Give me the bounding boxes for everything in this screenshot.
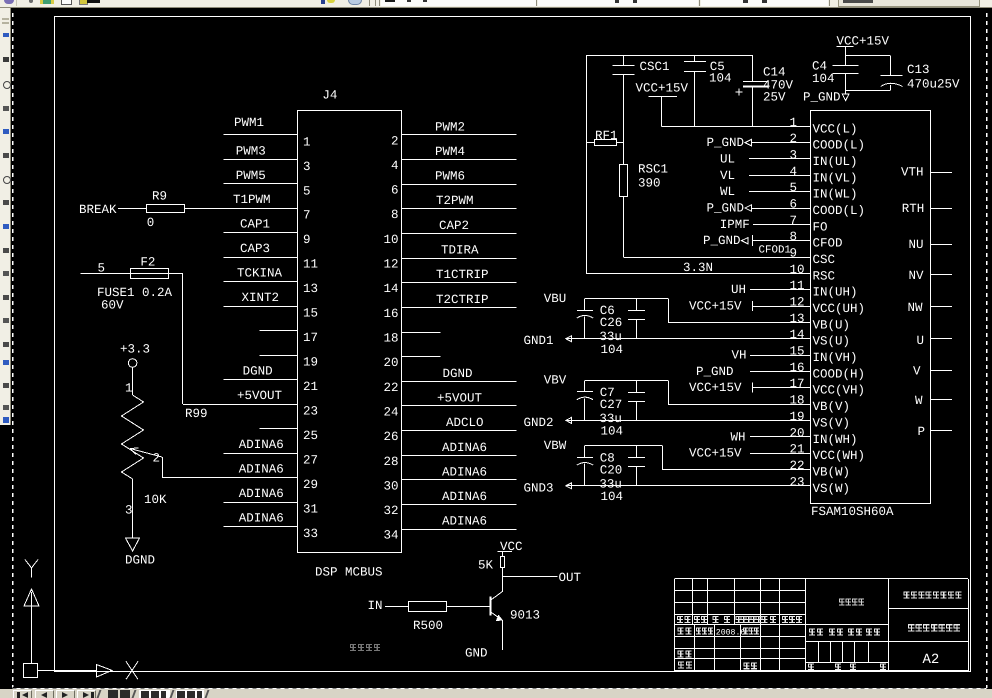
title block grid bbox=[675, 579, 969, 671]
capacitor CSC1 bbox=[612, 55, 669, 74]
svg-text:R9: R9 bbox=[152, 190, 167, 204]
resistor RSC1 390 bbox=[620, 163, 669, 197]
net label PWM5 (J4 pin 5) bbox=[236, 169, 266, 183]
IC pin number 14 bbox=[790, 328, 805, 342]
IC output RTH bbox=[902, 202, 952, 216]
svg-text:27: 27 bbox=[303, 454, 318, 468]
IC output V bbox=[913, 365, 952, 379]
canvas selection dashed edge right bbox=[986, 9, 988, 688]
wire J4 pin 2 (PWM2) bbox=[402, 134, 516, 136]
svg-text:VS(W): VS(W) bbox=[813, 482, 851, 496]
wire VCC+15V to IC pin 17 bbox=[753, 383, 811, 393]
svg-text:9: 9 bbox=[303, 233, 311, 247]
wire VBV rail to IC pin 18 bbox=[585, 380, 810, 404]
net label P_GND at IC pin 8 bbox=[703, 234, 748, 248]
svg-text:IPMF: IPMF bbox=[720, 218, 750, 232]
svg-text:13: 13 bbox=[790, 312, 805, 326]
pin number 12 bbox=[383, 258, 398, 272]
pin number 21 bbox=[303, 380, 318, 394]
wire C4/C13 ground rail bbox=[846, 90, 891, 92]
ground net GND3 wire to IC pin 23 bbox=[524, 481, 811, 495]
net label ADINA6 (J4 pin 34) bbox=[442, 515, 487, 529]
svg-text:21: 21 bbox=[790, 443, 805, 457]
svg-text:18: 18 bbox=[790, 394, 805, 408]
net label T2PWM (J4 pin 8) bbox=[436, 194, 474, 208]
svg-text:GND: GND bbox=[465, 647, 488, 661]
svg-text:ADINA6: ADINA6 bbox=[239, 463, 284, 477]
wire P_GND to IC pin 16 bbox=[750, 371, 810, 373]
fuse F2 FUSE1 0.2A 60V bbox=[97, 256, 173, 313]
svg-text:VCC+15V: VCC+15V bbox=[636, 82, 689, 96]
net label T1CTRIP (J4 pin 14) bbox=[436, 268, 489, 282]
ground net GND1 wire to IC pin 14 bbox=[524, 334, 811, 348]
IC pin number 17 bbox=[790, 377, 805, 391]
IC output NW bbox=[908, 301, 953, 315]
wire P_GND to IC pin 2 bbox=[751, 142, 810, 144]
net label ADINA6 (J4 pin 28) bbox=[442, 441, 487, 455]
capacitor C5 104 bbox=[684, 55, 732, 126]
wire VCC+15V to IC pin 12 bbox=[753, 301, 811, 311]
net label CAP1 (J4 pin 9) bbox=[240, 218, 270, 232]
svg-text:C20: C20 bbox=[600, 463, 623, 477]
net label VCC+15V at IC pin 21 bbox=[689, 447, 742, 461]
IC pin number 21 bbox=[790, 443, 805, 457]
svg-text:CFOD: CFOD bbox=[813, 237, 843, 251]
svg-text:104: 104 bbox=[601, 343, 624, 357]
net label VCC+15V at IC pin 17 bbox=[689, 381, 742, 395]
svg-text:20: 20 bbox=[383, 356, 398, 370]
svg-text:R500: R500 bbox=[413, 619, 443, 633]
svg-text:VL: VL bbox=[720, 169, 735, 183]
wire wiper to J4 pin 29 bbox=[162, 457, 164, 478]
wire J4 pin 19 stub bbox=[260, 355, 298, 357]
svg-text:24: 24 bbox=[383, 405, 398, 419]
svg-text:18: 18 bbox=[383, 332, 398, 346]
net label +5VOUT (J4 pin 23) bbox=[237, 389, 283, 403]
svg-text:ADCLO: ADCLO bbox=[446, 416, 484, 430]
svg-text:0: 0 bbox=[147, 216, 155, 230]
net label ADINA6 (J4 pin 29) bbox=[239, 463, 284, 477]
wire J4 pin 33 (ADINA6) bbox=[224, 526, 298, 528]
svg-text:RSC: RSC bbox=[813, 269, 836, 283]
pin 3 label of potentiometer bbox=[125, 504, 133, 518]
net label IN bbox=[368, 599, 383, 613]
IC pin name IN(WL) (pin 5) bbox=[813, 188, 858, 202]
wire VCC+15V to IC pin 21 bbox=[750, 453, 810, 455]
pin number 27 bbox=[303, 454, 318, 468]
value label 104 bbox=[601, 425, 624, 439]
svg-text:11: 11 bbox=[303, 258, 318, 272]
svg-text:ADINA6: ADINA6 bbox=[442, 515, 487, 529]
wire IPMF to IC pin 7 bbox=[753, 224, 810, 226]
pin number 2 bbox=[391, 134, 399, 148]
UCS icon origin box bbox=[24, 664, 38, 678]
IC pin name RSC (pin 10) bbox=[813, 269, 836, 283]
svg-text:34: 34 bbox=[383, 529, 398, 543]
net label P_GND at IC pin 6 bbox=[707, 202, 752, 216]
svg-text:IN(WH): IN(WH) bbox=[813, 433, 858, 447]
svg-text:30: 30 bbox=[383, 479, 398, 493]
IC pin name CSC (pin 9) bbox=[813, 253, 836, 267]
value label 33u bbox=[599, 412, 622, 426]
IC pin name COOD(H) (pin 16) bbox=[813, 367, 866, 381]
IC pin number 13 bbox=[790, 312, 805, 326]
pin number 33 bbox=[303, 527, 318, 541]
svg-text:16: 16 bbox=[383, 307, 398, 321]
svg-text:19: 19 bbox=[303, 356, 318, 370]
capacitor CFOD1 3.3N at IC pin 8 bbox=[753, 235, 811, 256]
svg-text:VCC(L): VCC(L) bbox=[813, 122, 858, 136]
svg-text:1: 1 bbox=[790, 116, 798, 130]
svg-text:VBU: VBU bbox=[544, 292, 567, 306]
svg-text:DSP MCBUS: DSP MCBUS bbox=[315, 566, 383, 580]
pin number 32 bbox=[383, 504, 398, 518]
net label ADINA6 (J4 pin 31) bbox=[239, 487, 284, 501]
svg-text:NW: NW bbox=[908, 301, 924, 315]
pin number 17 bbox=[303, 331, 318, 345]
top toolbar strip bbox=[0, 0, 992, 8]
svg-text:GND1: GND1 bbox=[524, 334, 554, 348]
potentiometer wiper arrow (pin 2) bbox=[130, 448, 162, 466]
wire J4 pin 32 (ADINA6) bbox=[402, 504, 516, 506]
svg-text:UL: UL bbox=[720, 153, 735, 167]
svg-text:W: W bbox=[915, 394, 923, 408]
svg-text:T2PWM: T2PWM bbox=[436, 194, 474, 208]
UCS icon X axis bbox=[38, 661, 138, 679]
net label ADINA6 (J4 pin 27) bbox=[239, 438, 284, 452]
IC U1 FSAM10SH60A body bbox=[811, 111, 931, 520]
svg-text:3: 3 bbox=[303, 160, 311, 174]
svg-text:WL: WL bbox=[720, 185, 735, 199]
svg-text:VTH: VTH bbox=[901, 166, 924, 180]
ground GND label bbox=[465, 647, 488, 661]
wire UH to IC pin 11 bbox=[750, 289, 810, 291]
pin 1 label of potentiometer bbox=[125, 382, 133, 396]
wire BREAK to R9 bbox=[118, 208, 147, 210]
svg-text:P_GND: P_GND bbox=[707, 202, 745, 216]
wire F2 to +5VOUT (R99 net) bbox=[169, 274, 183, 405]
wire J4 pin 31 (ADINA6) bbox=[224, 502, 298, 504]
wire VH to IC pin 15 bbox=[750, 355, 810, 357]
net label ADINA6 (J4 pin 33) bbox=[239, 512, 284, 526]
IC pin name IN(VL) (pin 4) bbox=[813, 171, 858, 185]
IC pin number 7 bbox=[790, 214, 798, 228]
IC pin name FO (pin 7) bbox=[813, 220, 828, 234]
svg-text:FO: FO bbox=[813, 220, 828, 234]
value label 33u bbox=[599, 330, 622, 344]
svg-text:DGND: DGND bbox=[243, 365, 273, 379]
svg-text:GND2: GND2 bbox=[524, 416, 554, 430]
svg-text:9013: 9013 bbox=[510, 609, 540, 623]
label R99 bbox=[185, 407, 208, 421]
svg-text:104: 104 bbox=[709, 72, 732, 86]
net label XINT2 (J4 pin 15) bbox=[242, 291, 280, 305]
pin number 28 bbox=[383, 455, 398, 469]
svg-text:VB(V): VB(V) bbox=[813, 400, 851, 414]
svg-text:ADINA6: ADINA6 bbox=[239, 438, 284, 452]
IC pin name VCC(UH) (pin 12) bbox=[813, 302, 866, 316]
IC pin number 1 bbox=[790, 116, 798, 130]
svg-text:3: 3 bbox=[125, 504, 133, 518]
wire WH to IC pin 20 bbox=[750, 436, 810, 438]
net label 5 bbox=[98, 262, 106, 276]
svg-text:IN: IN bbox=[368, 599, 383, 613]
IC pin name IN(UL) (pin 3) bbox=[813, 155, 858, 169]
svg-text:7: 7 bbox=[303, 209, 311, 223]
net label VL at IC pin 4 bbox=[720, 169, 735, 183]
pin number 16 bbox=[383, 307, 398, 321]
svg-text:10K: 10K bbox=[144, 493, 167, 507]
IC pin name VB(U) (pin 13) bbox=[813, 318, 851, 332]
net label VBV bbox=[544, 374, 567, 388]
wire lower rail to IC pin 1 bbox=[662, 126, 810, 128]
svg-text:60V: 60V bbox=[101, 299, 124, 313]
svg-text:4: 4 bbox=[391, 159, 399, 173]
svg-text:8: 8 bbox=[790, 230, 798, 244]
wire J4 pin 14 (T1CTRIP) bbox=[402, 282, 516, 284]
capacitor C8 (polarized) bbox=[577, 446, 615, 486]
wire emitter to GND bbox=[502, 620, 504, 650]
svg-text:COOD(H): COOD(H) bbox=[813, 367, 866, 381]
net label PWM1 (J4 pin 1) bbox=[234, 116, 264, 130]
canvas selection dashed edge bottom bbox=[13, 688, 987, 689]
svg-text:33: 33 bbox=[303, 527, 318, 541]
svg-text:11: 11 bbox=[790, 279, 805, 293]
svg-text:20: 20 bbox=[790, 426, 805, 440]
svg-text:OUT: OUT bbox=[559, 571, 582, 585]
IC pin name IN(VH) (pin 15) bbox=[813, 351, 858, 365]
canvas selection dashed edge left bbox=[12, 9, 14, 688]
wire J4 pin 24 (+5VOUT) bbox=[402, 405, 516, 407]
svg-text:C27: C27 bbox=[600, 398, 623, 412]
net label P_GND at IC pin 16 bbox=[696, 365, 734, 379]
svg-text:T2CTRIP: T2CTRIP bbox=[436, 293, 489, 307]
svg-text:P_GND: P_GND bbox=[696, 365, 734, 379]
wire J4 pin 15 (XINT2) bbox=[224, 306, 298, 308]
svg-text:ADINA6: ADINA6 bbox=[442, 441, 487, 455]
pin number 23 bbox=[303, 405, 318, 419]
svg-text:2: 2 bbox=[790, 132, 798, 146]
net label VBU bbox=[544, 292, 567, 306]
svg-text:FSAM10SH60A: FSAM10SH60A bbox=[811, 505, 894, 519]
net label TDIRA (J4 pin 12) bbox=[441, 244, 479, 258]
svg-text:F2: F2 bbox=[140, 256, 155, 270]
pin number 26 bbox=[383, 430, 398, 444]
wire J4 pin 22 (DGND) bbox=[402, 381, 516, 383]
svg-text:PWM6: PWM6 bbox=[435, 170, 465, 184]
pin number 1 bbox=[303, 135, 311, 149]
svg-text:26: 26 bbox=[383, 430, 398, 444]
net label T2CTRIP (J4 pin 16) bbox=[436, 293, 489, 307]
svg-text:R99: R99 bbox=[185, 407, 208, 421]
IC pin name VS(V) (pin 19) bbox=[813, 416, 851, 430]
svg-text:21: 21 bbox=[303, 380, 318, 394]
net label CAP3 (J4 pin 11) bbox=[240, 242, 270, 256]
wire potentiometer to ground bbox=[132, 479, 134, 538]
IC output NU bbox=[909, 238, 953, 252]
svg-text:RSC1: RSC1 bbox=[638, 163, 668, 177]
wire J4 pin 28 (ADINA6) bbox=[402, 455, 516, 457]
capacitor C7 (polarized) bbox=[577, 380, 615, 420]
svg-text:12: 12 bbox=[790, 296, 805, 310]
capacitor C6 (polarized) bbox=[577, 299, 615, 339]
wire C4 top to C13 bbox=[846, 56, 891, 76]
wire J4 pin 25 stub bbox=[260, 428, 298, 430]
IC pin number 22 bbox=[790, 459, 805, 473]
wire J4 pin 12 (TDIRA) bbox=[402, 258, 516, 260]
resistor R9 bbox=[147, 190, 185, 231]
wire J4 pin 7 (T1PWM) bbox=[185, 208, 298, 210]
IC pin number 6 bbox=[790, 198, 798, 212]
IC pin name VS(W) (pin 23) bbox=[813, 482, 851, 496]
svg-text:390: 390 bbox=[638, 177, 661, 191]
svg-text:COOD(L): COOD(L) bbox=[813, 204, 866, 218]
svg-text:VCC+15V: VCC+15V bbox=[689, 300, 742, 314]
wire J4 pin 10 (CAP2) bbox=[402, 233, 516, 235]
capacitor C27 bbox=[600, 380, 645, 420]
svg-text:T1PWM: T1PWM bbox=[233, 193, 271, 207]
svg-text:XINT2: XINT2 bbox=[242, 291, 280, 305]
pin number 5 bbox=[303, 184, 311, 198]
IC pin name CFOD (pin 8) bbox=[813, 237, 843, 251]
pin number 14 bbox=[383, 282, 398, 296]
svg-text:ADINA6: ADINA6 bbox=[239, 487, 284, 501]
net label ADCLO (J4 pin 26) bbox=[446, 416, 484, 430]
IC output W bbox=[915, 394, 952, 408]
wire J4 pin 18 stub bbox=[402, 332, 441, 334]
svg-text:16: 16 bbox=[790, 361, 805, 375]
net label DGND (J4 pin 22) bbox=[443, 367, 473, 381]
net label T1PWM (J4 pin 7) bbox=[233, 193, 271, 207]
svg-text:17: 17 bbox=[303, 331, 318, 345]
net label BREAK bbox=[79, 203, 117, 217]
IC pin number 8 bbox=[790, 230, 798, 244]
wire J4 pin 8 (T2PWM) bbox=[402, 208, 516, 210]
svg-text:6: 6 bbox=[790, 198, 798, 212]
svg-text:PWM3: PWM3 bbox=[236, 144, 266, 158]
svg-text:CAP1: CAP1 bbox=[240, 218, 270, 232]
value label 104 bbox=[601, 490, 624, 504]
net label WH at IC pin 20 bbox=[731, 430, 746, 444]
wire J4 pin 16 (T2CTRIP) bbox=[402, 307, 516, 309]
potentiometer RP 10K body bbox=[122, 395, 144, 479]
svg-text:+5VOUT: +5VOUT bbox=[237, 389, 283, 403]
wire J4 pin 23 (+5VOUT) bbox=[183, 404, 298, 406]
svg-text:IN(UL): IN(UL) bbox=[813, 155, 858, 169]
svg-text:8: 8 bbox=[391, 208, 399, 222]
wire J4 pin 21 (DGND) bbox=[224, 379, 298, 381]
wire CSC1 to RSC1 rail bbox=[623, 75, 625, 165]
svg-text:VB(W): VB(W) bbox=[813, 465, 851, 479]
svg-text:7: 7 bbox=[790, 214, 798, 228]
svg-text:13: 13 bbox=[303, 282, 318, 296]
svg-text:1: 1 bbox=[125, 382, 133, 396]
net label PWM4 (J4 pin 4) bbox=[435, 145, 465, 159]
label DSP MCBUS bbox=[315, 566, 383, 580]
net label DGND (J4 pin 21) bbox=[243, 365, 273, 379]
net label VBW bbox=[544, 439, 567, 453]
svg-text:22: 22 bbox=[790, 459, 805, 473]
power symbol VCC (transistor stage) bbox=[498, 540, 523, 557]
svg-text:23: 23 bbox=[790, 475, 805, 489]
svg-text:P_GND: P_GND bbox=[707, 136, 745, 150]
svg-text:15: 15 bbox=[303, 307, 318, 321]
svg-text:28: 28 bbox=[383, 455, 398, 469]
svg-text:P_GND: P_GND bbox=[703, 234, 741, 248]
pin number 30 bbox=[383, 479, 398, 493]
capacitor C14 470V 25V (polarized) bbox=[736, 55, 794, 126]
wire VBU rail to IC pin 13 bbox=[585, 299, 810, 323]
svg-text:CSC: CSC bbox=[813, 253, 836, 267]
UCS icon Y axis bbox=[24, 560, 39, 664]
svg-text:6: 6 bbox=[391, 184, 399, 198]
wire J4 pin 17 stub bbox=[260, 330, 298, 332]
svg-text:TDIRA: TDIRA bbox=[441, 244, 479, 258]
svg-text:PWM1: PWM1 bbox=[234, 116, 264, 130]
net label +5VOUT (J4 pin 24) bbox=[437, 391, 483, 405]
IC pin number 12 bbox=[790, 296, 805, 310]
net label VCC+15V at IC pin 12 bbox=[689, 300, 742, 314]
svg-text:C14: C14 bbox=[763, 66, 786, 80]
pin number 6 bbox=[391, 184, 399, 198]
svg-text:23: 23 bbox=[303, 405, 318, 419]
IC pin number 2 bbox=[790, 132, 798, 146]
capacitor C13 470u25V (polarized) bbox=[881, 63, 960, 92]
value label 33u bbox=[599, 477, 622, 491]
net label ADINA6 (J4 pin 32) bbox=[442, 490, 487, 504]
bottom layout-tab strip bbox=[0, 689, 992, 698]
wire UL to IC pin 3 bbox=[749, 158, 810, 160]
pin number 25 bbox=[303, 429, 318, 443]
svg-text:15: 15 bbox=[790, 345, 805, 359]
svg-text:PWM2: PWM2 bbox=[435, 120, 465, 134]
svg-text:WH: WH bbox=[731, 430, 746, 444]
wire J4 pin 9 (CAP1) bbox=[224, 232, 298, 234]
pin number 10 bbox=[383, 233, 398, 247]
svg-text:T1CTRIP: T1CTRIP bbox=[436, 268, 489, 282]
wire VL to IC pin 4 bbox=[749, 175, 810, 177]
svg-text:3.3N: 3.3N bbox=[683, 261, 713, 275]
net label VH at IC pin 15 bbox=[732, 349, 747, 363]
IC pin name IN(UH) (pin 11) bbox=[813, 286, 858, 300]
net label IPMF at IC pin 7 bbox=[720, 218, 750, 232]
svg-text:TCKINA: TCKINA bbox=[237, 267, 283, 281]
IC pin name COOD(L) (pin 2) bbox=[813, 139, 866, 153]
svg-text:NU: NU bbox=[909, 238, 924, 252]
pin number 7 bbox=[303, 209, 311, 223]
IC pin name VCC(WH) (pin 21) bbox=[813, 449, 866, 463]
svg-text:V: V bbox=[913, 365, 921, 379]
power symbol VCC+15V (top-right) bbox=[837, 35, 890, 66]
capacitor C4 104 bbox=[812, 60, 859, 91]
terminal +3.3 bbox=[120, 342, 150, 367]
svg-text:VBV: VBV bbox=[544, 374, 567, 388]
wire collector up bbox=[502, 577, 504, 592]
net label CAP2 (J4 pin 10) bbox=[439, 219, 469, 233]
svg-text:GND3: GND3 bbox=[524, 481, 554, 495]
svg-text:CFOD1: CFOD1 bbox=[759, 245, 791, 257]
IC pin name VB(V) (pin 18) bbox=[813, 400, 851, 414]
svg-text:2: 2 bbox=[391, 134, 399, 148]
title block small texts bbox=[677, 591, 961, 670]
IC pin name COOD(L) (pin 6) bbox=[813, 204, 866, 218]
svg-text:UH: UH bbox=[731, 283, 746, 297]
IC pin number 3 bbox=[790, 149, 798, 163]
pin number 24 bbox=[383, 405, 398, 419]
wire R500 to base bbox=[447, 606, 490, 608]
ground net GND2 wire to IC pin 19 bbox=[524, 416, 811, 430]
svg-text:ADINA6: ADINA6 bbox=[239, 512, 284, 526]
